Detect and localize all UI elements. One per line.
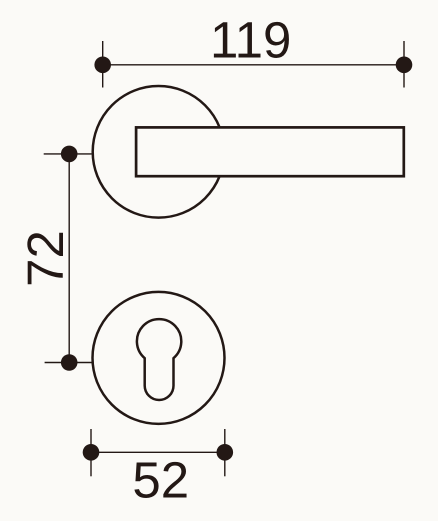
svg-text:72: 72 bbox=[17, 230, 74, 287]
svg-text:119: 119 bbox=[210, 11, 291, 68]
svg-text:52: 52 bbox=[132, 451, 189, 508]
